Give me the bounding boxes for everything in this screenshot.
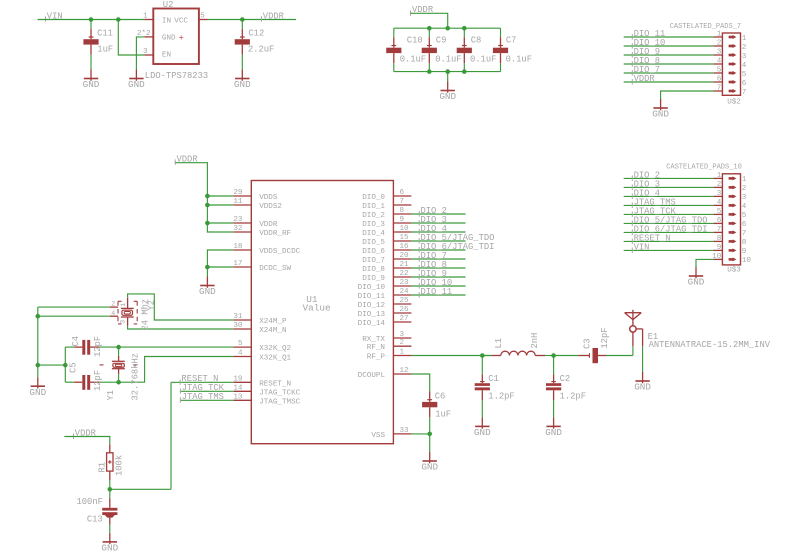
svg-text:3: 3 (400, 331, 405, 339)
svg-text:3: 3 (717, 49, 722, 57)
ground below U2 pin2 (128, 70, 145, 91)
svg-text:U$2: U$2 (727, 99, 741, 107)
svg-text:12pF: 12pF (600, 327, 610, 348)
svg-text:4: 4 (717, 199, 722, 207)
svg-text:GND: GND (101, 543, 118, 554)
junction top rail VDDR (445, 26, 450, 31)
svg-text:C10: C10 (407, 35, 423, 45)
svg-text:GND: GND (421, 462, 438, 473)
capacitor C10 (386, 28, 426, 71)
svg-text:6: 6 (717, 76, 722, 84)
U1 pin 27 DIO_14 (358, 315, 412, 328)
svg-text:C13: C13 (87, 515, 103, 525)
U$3 pin 8 (713, 235, 746, 247)
net label DIO_5/JTAG_TDO (419, 233, 494, 244)
U$2 pin 3 (713, 49, 746, 61)
svg-text:26: 26 (400, 306, 410, 314)
svg-text:10: 10 (742, 257, 752, 265)
net label VDDR (reset) (74, 428, 97, 439)
ground decoupling rail (439, 82, 456, 103)
svg-text:25: 25 (400, 297, 410, 305)
svg-text:29: 29 (233, 189, 243, 197)
wire RF_P (411, 355, 491, 357)
U$3 pin 2 (713, 181, 746, 193)
ground U$3 (688, 267, 705, 288)
U$3 pin 7 (713, 226, 746, 238)
wire top rail (394, 27, 501, 29)
net label DIO_3 (419, 215, 447, 226)
junction X1 bottom (116, 380, 121, 385)
svg-text:DIO_11: DIO_11 (358, 293, 386, 301)
svg-text:DIO_11: DIO_11 (421, 287, 453, 297)
svg-text:4: 4 (717, 58, 722, 66)
svg-text:DCOUPL: DCOUPL (358, 372, 386, 380)
wire bottom rail (394, 71, 501, 73)
junction DCDC_SW (205, 265, 210, 270)
svg-text:2: 2 (742, 185, 747, 193)
svg-text:18: 18 (233, 243, 243, 251)
svg-text:24: 24 (400, 288, 410, 296)
wire DIO_6/JTAG_TDI (411, 249, 465, 251)
svg-text:RESET_N: RESET_N (259, 380, 291, 388)
svg-text:1uF: 1uF (97, 45, 113, 55)
svg-text:DIO_6: DIO_6 (362, 248, 385, 256)
U1 pin 6 DIO_0 (362, 189, 411, 202)
wire EN branch (118, 20, 144, 56)
svg-text:C5: C5 (68, 362, 78, 373)
wire VIN (624, 249, 714, 251)
svg-text:GND: GND (83, 79, 100, 90)
wire VDDR feed (411, 13, 448, 28)
svg-text:L1: L1 (494, 338, 504, 349)
U1 pin 33 VSS (371, 427, 411, 440)
svg-text:C12: C12 (248, 28, 264, 38)
U$3 pin 5 (713, 208, 746, 220)
svg-text:3: 3 (742, 53, 747, 61)
wire DIO_6/JTAG_TDI (624, 231, 714, 233)
U2 pin 1 IN (143, 13, 153, 21)
svg-text:C9: C9 (436, 35, 447, 45)
wire DIO_2 (624, 177, 714, 179)
antenna E1 value (649, 340, 771, 350)
crystal Y1 value (130, 353, 140, 401)
U1 pin 14 JTAG_TCKC (233, 384, 300, 397)
junction VDDS (205, 194, 210, 199)
svg-text:VDDR: VDDR (259, 221, 278, 229)
svg-text:32.768kHz: 32.768kHz (130, 353, 140, 401)
svg-text:1.2pF: 1.2pF (560, 392, 586, 402)
U1 pin 10 DIO_4 (362, 225, 411, 238)
wire C4 C5 left column (38, 347, 74, 382)
wire VDDS_DCDC / DCDC_SW to ground (207, 250, 233, 277)
svg-text:100k: 100k (115, 455, 125, 476)
wire VDDR output (208, 19, 296, 21)
svg-text:10: 10 (400, 225, 410, 233)
ground VSS (421, 452, 438, 473)
U1 pin 29 VDDS (233, 189, 278, 202)
U1 pin 5 X32K_Q2 (233, 340, 291, 353)
junction VDDR pin (205, 221, 210, 226)
wire JTAG_TMS (180, 399, 233, 401)
net label VIN (46, 11, 63, 21)
svg-text:1.2pF: 1.2pF (488, 392, 514, 402)
crystal Y1 name (106, 390, 116, 401)
wire DIO_10 (411, 285, 465, 287)
U1 pin 23 DIO_10 (358, 279, 412, 292)
ground below C11 (83, 70, 100, 91)
svg-text:3: 3 (742, 194, 747, 202)
junction top rail C8 (462, 26, 467, 31)
wire VSS (411, 434, 429, 452)
svg-text:6: 6 (742, 80, 747, 88)
wire JTAG_TCK (624, 213, 714, 215)
net label JTAG_TCK (632, 206, 676, 217)
svg-text:3: 3 (143, 48, 148, 56)
junction VDDR-C12 (240, 17, 245, 22)
svg-text:VIN: VIN (634, 242, 650, 252)
U1 pin 21 DIO_8 (362, 261, 411, 274)
svg-text:15: 15 (400, 234, 410, 242)
U1 pin 24 DIO_11 (358, 288, 412, 301)
inductor L1 value (530, 333, 540, 349)
svg-text:VSS: VSS (371, 432, 385, 440)
svg-text:32: 32 (233, 225, 243, 233)
net label DIO_8 (632, 56, 660, 67)
wire DIO_7 (624, 72, 714, 74)
junction X1 top (116, 345, 121, 350)
svg-text:6: 6 (717, 217, 722, 225)
svg-text:0.1uF: 0.1uF (435, 54, 461, 64)
U1 pin 7 DIO_1 (362, 198, 411, 211)
net label DIO_4 (632, 188, 660, 199)
junction RF C2 (551, 353, 556, 358)
svg-text:13: 13 (233, 393, 243, 401)
svg-text:VDDR: VDDR (263, 11, 285, 21)
svg-text:DIO_1: DIO_1 (362, 203, 385, 211)
ground C13 (101, 533, 118, 554)
junction bottom rail C9 (427, 69, 432, 74)
svg-text:JTAG_TCKC: JTAG_TCKC (259, 389, 300, 397)
svg-text:9: 9 (742, 248, 747, 256)
svg-text:DIO_9: DIO_9 (362, 275, 385, 283)
svg-text:R1: R1 (98, 462, 108, 473)
wire U2 GND to ground (136, 37, 144, 70)
svg-text:DIO_3: DIO_3 (362, 221, 385, 229)
svg-text:5: 5 (717, 208, 722, 216)
wire RESET_N (110, 382, 234, 489)
svg-text:GND: GND (634, 382, 651, 393)
connector U$3 box (722, 174, 740, 265)
svg-text:DIO_4: DIO_4 (362, 230, 385, 238)
svg-text:DIO_12: DIO_12 (358, 302, 386, 310)
wire U$3 pin10 to ground (696, 259, 713, 267)
U$2 pin 5 (713, 67, 746, 79)
capacitor C11 (83, 20, 113, 70)
wire DIO_11 (411, 294, 465, 296)
svg-text:21: 21 (400, 261, 410, 269)
svg-text:1: 1 (717, 172, 722, 180)
net label VIN (632, 242, 649, 253)
net label DIO_4 (419, 224, 447, 235)
svg-text:GND: GND (652, 109, 669, 120)
wire DIO_4 (411, 231, 465, 233)
U$2 pin 2 (713, 40, 746, 52)
junction bottom rail C8 (462, 69, 467, 74)
svg-text:C2: C2 (560, 374, 571, 384)
crystal Y2 (110, 298, 138, 326)
U1 pin 25 DIO_12 (358, 297, 412, 310)
capacitor C7 (493, 28, 532, 71)
capacitor C4 (71, 336, 119, 357)
U$2 pin 7 (713, 85, 746, 97)
net label DIO_3 (632, 179, 660, 190)
U1 pin 13 JTAG_TMSC (233, 393, 300, 406)
svg-text:RF_N: RF_N (367, 344, 385, 352)
svg-text:VDDR_RF: VDDR_RF (259, 230, 291, 238)
svg-text:11: 11 (233, 198, 243, 206)
svg-text:U2: U2 (163, 0, 174, 10)
svg-text:10: 10 (712, 253, 722, 261)
svg-text:DIO_0: DIO_0 (362, 194, 385, 202)
svg-text:Y1: Y1 (106, 390, 116, 401)
junction top rail C9 (427, 26, 432, 31)
IC U1 box (251, 181, 393, 444)
svg-text:27: 27 (400, 315, 409, 323)
U$2 pin 4 (713, 58, 746, 70)
ground crystal column (29, 377, 46, 398)
wire GND stub decoupling (447, 72, 449, 82)
net label DIO_7 (419, 251, 447, 262)
svg-text:X32K_Q1: X32K_Q1 (259, 355, 291, 363)
svg-text:Value: Value (303, 303, 332, 314)
svg-text:ANTENNATRACE-15.2MM_INV: ANTENNATRACE-15.2MM_INV (649, 340, 771, 350)
svg-text:EN: EN (162, 52, 171, 60)
svg-text:VDDS_DCDC: VDDS_DCDC (259, 248, 300, 256)
svg-text:GND: GND (29, 387, 46, 398)
svg-text:C1: C1 (488, 374, 499, 384)
svg-text:12pF: 12pF (93, 336, 103, 357)
wire DCOUPL (411, 374, 429, 392)
svg-text:7: 7 (717, 226, 722, 234)
net label DIO_9 (632, 47, 660, 58)
junction bottom rail GND (445, 69, 450, 74)
svg-text:GND: GND (474, 427, 491, 438)
net label DIO_11 (632, 29, 665, 40)
ground U$2 (652, 99, 669, 120)
svg-text:7: 7 (742, 89, 747, 97)
wire DIO_3 (411, 222, 465, 224)
U1 pin 22 DIO_9 (362, 270, 411, 283)
U$3 pin 3 (713, 190, 746, 202)
net label JTAG_TMS (632, 197, 676, 208)
capacitor C1 (475, 356, 515, 418)
wire DIO_9 (624, 54, 714, 56)
ground antenna (634, 372, 651, 393)
ground below C12 (234, 70, 251, 91)
wire DIO_5/JTAG_TDO (411, 240, 465, 242)
svg-text:LDO-TPS78233: LDO-TPS78233 (145, 71, 208, 81)
svg-text:X24M_P: X24M_P (259, 318, 287, 326)
U1 pin 17 DCDC_SW (233, 260, 291, 273)
svg-text:C7: C7 (506, 35, 517, 45)
U2 pin 5 VCC (199, 13, 208, 21)
net label DIO_2 (419, 206, 447, 217)
svg-text:31: 31 (233, 313, 243, 321)
svg-text:DIO_5: DIO_5 (362, 239, 385, 247)
svg-text:19: 19 (233, 375, 243, 383)
svg-text:9: 9 (717, 244, 722, 252)
svg-text:8: 8 (400, 207, 405, 215)
junction VDDS2 (205, 203, 210, 208)
U2 pin 3 EN (143, 48, 153, 56)
svg-text:20: 20 (400, 252, 410, 260)
U1 pin 30 X24M_N (233, 322, 286, 335)
svg-text:5: 5 (742, 212, 747, 220)
U1 pin 15 DIO_5 (362, 234, 411, 247)
svg-text:RX_TX: RX_TX (362, 336, 385, 344)
svg-text:DCDC_SW: DCDC_SW (259, 265, 291, 273)
svg-text:JTAG_TMS: JTAG_TMS (182, 392, 224, 402)
net label DIO_8 (419, 260, 447, 271)
net label DIO_11 (419, 287, 452, 298)
svg-text:GND: GND (162, 35, 176, 43)
svg-text:2: 2 (742, 44, 747, 52)
net label DIO_2 (632, 170, 660, 181)
svg-text:1: 1 (717, 31, 722, 39)
junction ground column (36, 363, 41, 368)
U1 pin 32 VDDR_RF (233, 225, 291, 238)
U1 pin 12 DCOUPL (358, 367, 412, 380)
svg-text:1: 1 (143, 13, 148, 21)
wire DIO_7 (411, 258, 465, 260)
svg-text:5: 5 (717, 67, 722, 75)
wire U$2 pin7 to ground (661, 91, 714, 99)
junction VIN-EN (116, 17, 121, 22)
svg-text:8: 8 (742, 239, 747, 247)
svg-text:GND: GND (199, 286, 216, 297)
svg-text:RF_P: RF_P (367, 354, 386, 362)
svg-text:8: 8 (717, 235, 722, 243)
U1 pin 4 X32K_Q1 (233, 350, 291, 363)
U1 pin 2 RF_N (367, 339, 412, 352)
net label DIO_10 (419, 278, 452, 289)
U$3 pin 10 (712, 253, 751, 265)
svg-text:4: 4 (111, 310, 115, 317)
net label DIO_7 (632, 65, 660, 76)
net label VDDR (632, 74, 655, 85)
svg-text:7: 7 (717, 85, 722, 93)
svg-text:VCC: VCC (174, 18, 188, 26)
svg-text:4: 4 (742, 203, 747, 211)
svg-text:6: 6 (400, 189, 405, 197)
svg-text:DIO_7: DIO_7 (362, 257, 385, 265)
ground C2 (545, 417, 562, 438)
net label VDDR (262, 11, 285, 21)
antenna E1 name (648, 332, 659, 342)
net label JTAG_TCK (180, 383, 224, 394)
capacitor C5 (68, 362, 118, 391)
capacitor C2 (546, 356, 586, 418)
svg-text:33: 33 (400, 427, 410, 435)
U$2 pin 1 (713, 31, 746, 43)
crystal Y1 32k (100, 347, 138, 382)
U1 pin 1 RF_P (367, 349, 412, 362)
wire VDDR to R1 (64, 437, 110, 445)
junction case pin4 (36, 314, 41, 319)
net label JTAG_TMS (180, 392, 224, 403)
svg-text:+: + (179, 33, 184, 43)
wire crystal case to ground column (38, 307, 110, 377)
wire DIO_11 (624, 36, 714, 38)
svg-text:DIO_2: DIO_2 (362, 212, 385, 220)
wire JTAG_TCK (180, 390, 233, 392)
wire X32K_Q1 (119, 357, 234, 383)
svg-text:1: 1 (120, 303, 127, 307)
svg-text:2: 2 (717, 181, 722, 189)
svg-text:DIO_13: DIO_13 (358, 311, 386, 319)
svg-text:30: 30 (233, 322, 243, 330)
svg-text:0.1uF: 0.1uF (400, 54, 426, 64)
wire antenna feed (632, 346, 634, 355)
svg-text:0.1uF: 0.1uF (470, 54, 496, 64)
capacitor C8 (457, 28, 497, 71)
junction VIN-C11 (89, 17, 94, 22)
net label VDDR (U1 supply) (175, 155, 198, 165)
svg-text:12pF: 12pF (93, 370, 103, 391)
svg-text:2: 2 (717, 40, 722, 48)
svg-text:16: 16 (400, 243, 410, 251)
svg-text:1uF: 1uF (435, 409, 451, 419)
capacitor C6 (422, 391, 451, 434)
U$3 pin 9 (713, 244, 746, 256)
net label RESET_N (180, 374, 218, 385)
inductor L1 (482, 351, 553, 355)
svg-text:1: 1 (742, 35, 747, 43)
svg-text:1: 1 (400, 349, 405, 357)
svg-text:2: 2 (111, 301, 115, 308)
svg-text:C6: C6 (435, 391, 446, 401)
wire DIO_8 (411, 267, 465, 269)
U$3 pin 6 (713, 217, 746, 229)
wire X24M_P loop (128, 294, 234, 320)
svg-text:GND: GND (545, 427, 562, 438)
capacitor C9 (422, 28, 462, 71)
svg-text:4: 4 (742, 62, 747, 70)
antenna E1 (625, 310, 643, 372)
resistor R1 (98, 444, 125, 489)
U$3 pin 1 (713, 172, 746, 184)
svg-text:JTAG_TMSC: JTAG_TMSC (259, 398, 300, 406)
IC U1 value (303, 303, 332, 314)
U1 pin 26 DIO_13 (358, 306, 412, 319)
crystal Y2 name (147, 300, 157, 311)
connector U$3 name (727, 267, 741, 275)
wire VDDR to U1 supply pins (175, 163, 233, 232)
svg-text:DIO_14: DIO_14 (358, 320, 386, 328)
ground C1 (474, 417, 491, 438)
U1 pin 3 RX_TX (362, 331, 411, 344)
svg-text:9: 9 (400, 216, 405, 224)
net label RESET_N (632, 233, 670, 244)
svg-text:VDDS: VDDS (259, 194, 278, 202)
U1 pin 20 DIO_7 (362, 252, 411, 265)
wire RESET_N (624, 240, 714, 242)
IC U1 name (306, 294, 318, 305)
svg-text:22: 22 (400, 270, 410, 278)
U1 pin 23 VDDR (233, 216, 278, 229)
svg-text:5: 5 (742, 71, 747, 79)
net label DIO_9 (419, 269, 447, 280)
